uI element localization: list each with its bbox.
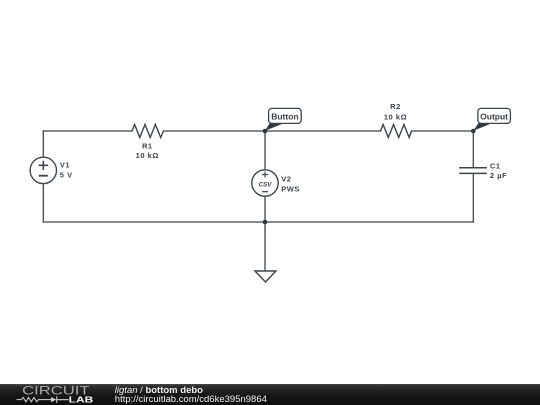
voltage source V1 body	[30, 157, 73, 183]
node Output flag	[473, 108, 510, 130]
wire R1 to Button node	[164, 130, 266, 132]
wire right vertical upper	[472, 131, 474, 168]
svg-text:CSV: CSV	[259, 181, 273, 188]
logo resistor zigzag	[17, 397, 51, 401]
junction dot Output node	[471, 129, 476, 134]
svg-text:10 kΩ: 10 kΩ	[384, 112, 407, 121]
Output flag box	[478, 108, 511, 123]
svg-text:V1: V1	[60, 160, 70, 169]
C1 bottom plate	[459, 172, 487, 174]
voltage source V2 body	[252, 170, 300, 196]
svg-text:LAB: LAB	[69, 395, 94, 404]
resistor R2	[381, 102, 412, 137]
wire left vertical upper	[42, 131, 44, 157]
svg-text:V2: V2	[281, 174, 291, 183]
V1 plus sign	[39, 161, 48, 170]
junction dot Button node	[263, 129, 268, 134]
svg-text:R2: R2	[390, 102, 401, 111]
svg-text:C1: C1	[490, 161, 501, 170]
svg-text:2 µF: 2 µF	[490, 171, 507, 180]
wire top-left segment	[43, 130, 132, 132]
wire middle vertical lower	[264, 196, 266, 222]
svg-text:Button: Button	[271, 112, 298, 122]
logo diode	[51, 397, 56, 402]
logo diode bar and lead	[57, 396, 69, 403]
ground	[255, 271, 276, 282]
V2 plus sign	[262, 172, 268, 178]
svg-text:5 V: 5 V	[60, 170, 73, 179]
svg-text:http://circuitlab.com/cd6ke395: http://circuitlab.com/cd6ke395n9864	[115, 394, 267, 405]
wire Button node to R2	[265, 130, 381, 132]
capacitor C1	[459, 161, 507, 180]
Button flag pointer	[265, 123, 284, 130]
Button flag box	[269, 108, 302, 123]
footer bar	[0, 384, 540, 405]
wire bottom	[43, 221, 473, 223]
svg-text:PWS: PWS	[281, 184, 300, 193]
V2 minus sign	[262, 191, 268, 193]
wire ground stem	[264, 222, 266, 271]
Output flag pointer	[473, 123, 491, 130]
node Button flag	[265, 108, 301, 130]
wire right vertical lower	[472, 173, 474, 222]
junction dot ground node	[263, 220, 268, 225]
wire middle vertical upper	[264, 131, 266, 170]
wire left vertical lower	[42, 184, 44, 222]
C1 top plate	[459, 167, 487, 169]
svg-text:R1: R1	[142, 141, 153, 150]
resistor R1	[132, 125, 164, 161]
wire R2 to Output node	[412, 130, 474, 132]
svg-text:Output: Output	[480, 112, 508, 122]
V1 minus sign	[39, 175, 48, 177]
svg-text:10 kΩ: 10 kΩ	[136, 151, 159, 160]
